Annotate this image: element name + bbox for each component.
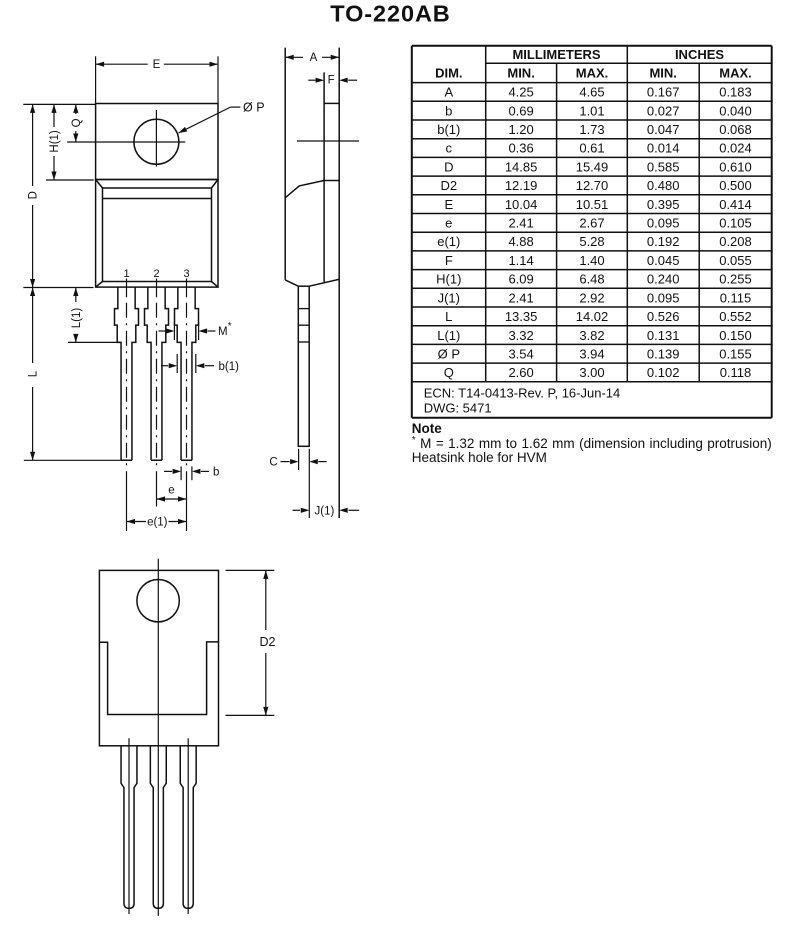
svg-text:0.526: 0.526 bbox=[647, 309, 680, 324]
svg-text:D: D bbox=[28, 191, 40, 199]
svg-text:2: 2 bbox=[153, 268, 159, 280]
dimensions table grid bbox=[412, 45, 772, 47]
rear view heatsink tab U outline bbox=[99, 642, 218, 715]
svg-text:0.027: 0.027 bbox=[647, 103, 680, 118]
svg-text:0.480: 0.480 bbox=[647, 178, 680, 193]
svg-text:DWG: 5471: DWG: 5471 bbox=[424, 401, 492, 416]
svg-text:L(1): L(1) bbox=[437, 328, 460, 343]
dimension L bbox=[32, 288, 34, 364]
dimension F bbox=[308, 79, 315, 81]
svg-text:3.82: 3.82 bbox=[579, 328, 604, 343]
svg-text:MAX.: MAX. bbox=[576, 66, 609, 81]
svg-text:INCHES: INCHES bbox=[675, 47, 724, 62]
svg-text:4.65: 4.65 bbox=[579, 85, 604, 100]
rear view pin 2 lead with pointed tip bbox=[150, 746, 166, 909]
svg-text:3.54: 3.54 bbox=[508, 346, 533, 361]
svg-text:D2: D2 bbox=[440, 178, 457, 193]
front view pin 1 dashed centerline bbox=[126, 303, 128, 466]
svg-text:D2: D2 bbox=[260, 635, 276, 649]
svg-text:0.040: 0.040 bbox=[719, 103, 752, 118]
front view body corner bevel lines bbox=[96, 180, 103, 189]
svg-text:0.047: 0.047 bbox=[647, 122, 680, 137]
svg-text:J(1): J(1) bbox=[314, 505, 334, 517]
svg-text:15.49: 15.49 bbox=[576, 159, 609, 174]
dimension M* measuring pin 3 shoulder bbox=[173, 322, 175, 340]
svg-text:0.183: 0.183 bbox=[719, 85, 752, 100]
svg-text:4.88: 4.88 bbox=[508, 234, 533, 249]
svg-text:A: A bbox=[444, 85, 453, 100]
svg-text:6.48: 6.48 bbox=[579, 272, 604, 287]
svg-text:1.40: 1.40 bbox=[579, 253, 604, 268]
svg-text:C: C bbox=[269, 457, 277, 469]
svg-text:Q: Q bbox=[71, 118, 83, 127]
svg-text:0.118: 0.118 bbox=[720, 365, 752, 380]
svg-text:MIN.: MIN. bbox=[649, 66, 676, 81]
front view pin 2 dashed centerline bbox=[156, 303, 158, 466]
svg-text:H(1): H(1) bbox=[49, 130, 61, 153]
svg-text:10.04: 10.04 bbox=[505, 197, 538, 212]
svg-text:0.095: 0.095 bbox=[647, 216, 680, 231]
body bottom extension line bbox=[23, 287, 93, 289]
svg-text:e(1): e(1) bbox=[147, 517, 168, 529]
svg-text:0.585: 0.585 bbox=[647, 159, 680, 174]
svg-text:0.610: 0.610 bbox=[719, 159, 752, 174]
svg-text:3.32: 3.32 bbox=[508, 328, 533, 343]
side view body top chamfer bbox=[285, 181, 324, 198]
svg-text:MIN.: MIN. bbox=[507, 66, 534, 81]
svg-text:E: E bbox=[153, 59, 161, 71]
svg-text:e: e bbox=[445, 216, 452, 231]
svg-text:0.139: 0.139 bbox=[647, 346, 680, 361]
svg-text:L: L bbox=[28, 370, 40, 377]
top extension line for D H(1) Q bbox=[23, 103, 95, 105]
dimension D2 extension lines bbox=[226, 569, 275, 571]
svg-text:Ø P: Ø P bbox=[438, 346, 460, 361]
dimension A bbox=[285, 56, 303, 58]
svg-text:F: F bbox=[445, 253, 453, 268]
svg-text:0.102: 0.102 bbox=[647, 365, 680, 380]
pin center extension lines below leads bbox=[126, 471, 128, 531]
svg-text:3: 3 bbox=[183, 268, 189, 280]
front view pin 2 lead outline bbox=[145, 287, 169, 460]
front view plastic body outer outline bbox=[96, 180, 218, 288]
front view hole horizontal centerline bbox=[67, 141, 185, 143]
svg-text:14.85: 14.85 bbox=[505, 159, 538, 174]
dimension D bbox=[32, 104, 34, 186]
side view tab top edge bbox=[324, 102, 339, 104]
svg-text:b(1): b(1) bbox=[219, 361, 240, 373]
svg-text:E: E bbox=[444, 197, 453, 212]
svg-text:12.19: 12.19 bbox=[505, 178, 538, 193]
side view hole centerline bbox=[297, 140, 359, 142]
hole-center extension line handled above - Q dimension bbox=[75, 104, 77, 114]
svg-text:0.61: 0.61 bbox=[579, 141, 604, 156]
side view tab front face line bbox=[323, 72, 325, 282]
svg-text:J(1): J(1) bbox=[438, 290, 460, 305]
rear view pin 3 lead with pointed tip bbox=[180, 746, 196, 909]
svg-text:10.51: 10.51 bbox=[576, 197, 609, 212]
svg-text:L(1): L(1) bbox=[71, 308, 83, 329]
svg-text:ECN: T14-0413-Rev. P, 16-Jun-1: ECN: T14-0413-Rev. P, 16-Jun-14 bbox=[424, 386, 621, 401]
svg-text:M: M bbox=[218, 326, 228, 338]
svg-text:2.67: 2.67 bbox=[579, 216, 604, 231]
dimension J(1) bbox=[293, 509, 301, 511]
side view body bottom chamfer rear bbox=[309, 279, 339, 286]
front view pin 1 lead outline bbox=[115, 287, 139, 460]
svg-text:0.105: 0.105 bbox=[719, 216, 752, 231]
svg-text:1.01: 1.01 bbox=[579, 103, 604, 118]
svg-text:1: 1 bbox=[123, 268, 129, 280]
svg-text:0.192: 0.192 bbox=[647, 234, 680, 249]
svg-text:4.25: 4.25 bbox=[508, 85, 533, 100]
svg-text:DIM.: DIM. bbox=[435, 66, 462, 81]
svg-text:MILLIMETERS: MILLIMETERS bbox=[512, 47, 600, 62]
svg-text:e: e bbox=[168, 485, 174, 497]
svg-text:0.095: 0.095 bbox=[647, 290, 680, 305]
dimension E extension lines bbox=[95, 56, 97, 103]
svg-text:1.14: 1.14 bbox=[508, 253, 533, 268]
front view mold step line bbox=[103, 198, 212, 200]
rear view pin 1 lead with pointed tip bbox=[121, 746, 137, 909]
svg-text:MAX.: MAX. bbox=[719, 66, 752, 81]
svg-text:12.70: 12.70 bbox=[576, 178, 609, 193]
dimension e pin pitch bbox=[157, 498, 187, 500]
dimension L(1) bbox=[75, 288, 77, 303]
svg-text:H(1): H(1) bbox=[436, 272, 461, 287]
svg-text:0.69: 0.69 bbox=[508, 103, 533, 118]
side view body top meets tab edge bbox=[324, 180, 339, 182]
svg-text:*: * bbox=[228, 321, 232, 332]
svg-text:L: L bbox=[445, 309, 452, 324]
rear view pin 3 centerline bbox=[187, 738, 189, 914]
side view body bottom chamfer front bbox=[285, 280, 298, 286]
svg-text:0.024: 0.024 bbox=[719, 141, 752, 156]
svg-text:2.41: 2.41 bbox=[508, 216, 533, 231]
svg-text:0.208: 0.208 bbox=[719, 234, 752, 249]
front view tab (mounting flange) outline bbox=[96, 104, 218, 180]
svg-text:0.395: 0.395 bbox=[647, 197, 680, 212]
svg-text:0.115: 0.115 bbox=[720, 290, 752, 305]
svg-text:D: D bbox=[444, 159, 453, 174]
svg-text:0.414: 0.414 bbox=[719, 197, 752, 212]
svg-text:6.09: 6.09 bbox=[508, 272, 533, 287]
svg-text:0.045: 0.045 bbox=[647, 253, 680, 268]
dimension b measuring pin 3 tip width bbox=[180, 466, 182, 480]
svg-text:2.41: 2.41 bbox=[508, 290, 533, 305]
svg-text:0.255: 0.255 bbox=[719, 272, 752, 287]
svg-text:3.94: 3.94 bbox=[579, 346, 604, 361]
svg-text:e(1): e(1) bbox=[437, 234, 460, 249]
side view pin profile bbox=[298, 286, 309, 446]
rear view mounting hole bbox=[137, 580, 179, 622]
svg-text:0.150: 0.150 bbox=[719, 328, 752, 343]
svg-text:Q: Q bbox=[444, 365, 454, 380]
svg-text:0.055: 0.055 bbox=[719, 253, 752, 268]
rear view body outline bbox=[99, 570, 218, 745]
svg-text:0.240: 0.240 bbox=[647, 272, 680, 287]
dimension b(1) measuring pin 3 lead upper width bbox=[176, 354, 178, 373]
svg-text:TO-220AB: TO-220AB bbox=[330, 1, 450, 27]
svg-text:b(1): b(1) bbox=[437, 122, 460, 137]
L(1) bottom extension line bbox=[68, 341, 120, 343]
note line M protrusion, justified bbox=[412, 435, 772, 451]
side view front face line bbox=[284, 48, 286, 280]
svg-text:0.500: 0.500 bbox=[719, 178, 752, 193]
dimension H(1) bbox=[53, 104, 55, 127]
svg-text:b: b bbox=[445, 103, 452, 118]
svg-text:0.36: 0.36 bbox=[508, 141, 533, 156]
svg-text:A: A bbox=[310, 52, 318, 64]
svg-text:2.60: 2.60 bbox=[508, 365, 533, 380]
svg-text:0.155: 0.155 bbox=[719, 346, 752, 361]
svg-text:1.20: 1.20 bbox=[508, 122, 533, 137]
side pin extension lines below bbox=[298, 449, 300, 470]
svg-text:13.35: 13.35 bbox=[505, 309, 538, 324]
svg-text:3.00: 3.00 bbox=[579, 365, 604, 380]
svg-text:Ø P: Ø P bbox=[243, 100, 265, 114]
front view mounting hole P bbox=[134, 119, 179, 164]
dimension D2 bbox=[265, 570, 267, 630]
svg-text:0.552: 0.552 bbox=[719, 309, 752, 324]
front view pin 3 dashed centerline bbox=[186, 303, 188, 466]
front view hole vertical centerline bbox=[155, 110, 157, 167]
dimension e(1) pin1-pin3 pitch bbox=[127, 521, 147, 523]
front view pin 3 lead outline bbox=[175, 287, 199, 460]
front view plastic body inner bevel rect bbox=[103, 188, 212, 282]
svg-text:5.28: 5.28 bbox=[579, 234, 604, 249]
svg-text:c: c bbox=[446, 141, 453, 156]
dimension E line and arrows bbox=[96, 63, 148, 65]
note heading bbox=[412, 421, 772, 436]
svg-text:14.02: 14.02 bbox=[576, 309, 609, 324]
side view rear face line bbox=[338, 48, 340, 518]
svg-text:1.73: 1.73 bbox=[579, 122, 604, 137]
note line heatsink bbox=[412, 450, 772, 465]
H(1) bottom extension line bbox=[46, 179, 94, 181]
svg-text:0.068: 0.068 bbox=[719, 122, 752, 137]
L bottom extension line bbox=[24, 459, 121, 461]
svg-text:0.167: 0.167 bbox=[647, 85, 680, 100]
rear view pin 1 centerline bbox=[128, 738, 130, 914]
svg-text:0.131: 0.131 bbox=[647, 328, 680, 343]
svg-text:b: b bbox=[213, 467, 219, 479]
svg-text:F: F bbox=[328, 74, 335, 86]
rear view vertical centerline bbox=[157, 559, 159, 916]
side view pin bend ticks bbox=[298, 308, 309, 310]
svg-text:0.014: 0.014 bbox=[647, 141, 680, 156]
svg-text:2.92: 2.92 bbox=[579, 290, 604, 305]
